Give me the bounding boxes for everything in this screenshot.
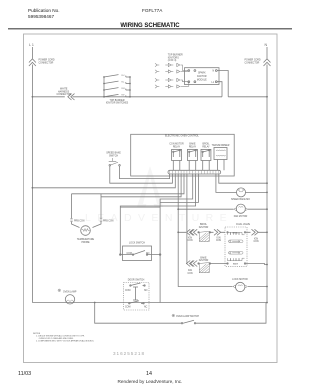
svg-text:LOCK SWITCH: LOCK SWITCH (129, 243, 145, 245)
svg-text:BAKE: BAKE (233, 263, 239, 266)
svg-text:NO: NO (144, 290, 148, 292)
svg-text:RELAY: RELAY (189, 145, 197, 148)
svg-text:N: N (213, 71, 215, 73)
svg-text:DOOR SWITCH: DOOR SWITCH (128, 279, 145, 281)
svg-text:OVEN LAMP: OVEN LAMP (63, 290, 77, 293)
svg-text:ELECTRONIC OVEN CONTROL: ELECTRONIC OVEN CONTROL (165, 136, 200, 138)
svg-text:316255218: 316255218 (113, 351, 145, 356)
svg-text:BROIL: BROIL (233, 232, 239, 234)
svg-text:CON MOTOR: CON MOTOR (169, 144, 184, 146)
svg-text:POWER CORD: POWER CORD (245, 60, 261, 62)
svg-text:WHITE: WHITE (60, 89, 68, 91)
svg-text:TOP BURNER: TOP BURNER (168, 55, 183, 57)
svg-text:PRB CON: PRB CON (74, 221, 85, 223)
svg-text:POWER CORD: POWER CORD (39, 60, 55, 62)
svg-text:SPEED BAKE MO: SPEED BAKE MO (231, 198, 250, 201)
svg-text:SPEED BAKE: SPEED BAKE (106, 152, 121, 155)
svg-text:PROBE: PROBE (81, 242, 90, 244)
svg-text:CON: CON (253, 241, 258, 243)
svg-text:LOCK MOTOR: LOCK MOTOR (232, 279, 248, 281)
svg-text:IGNITOR: IGNITOR (199, 227, 209, 229)
svg-text:R-F: R-F (122, 95, 126, 97)
svg-text:Rendered by LeadVenture, Inc.: Rendered by LeadVenture, Inc. (118, 379, 183, 384)
svg-text:NC: NC (144, 306, 148, 308)
svg-text:CON: CON (216, 240, 221, 242)
svg-text:DUAL VALVE: DUAL VALVE (236, 223, 250, 226)
svg-text:CON: CON (187, 273, 192, 275)
svg-text:TOP BURNER: TOP BURNER (110, 100, 125, 102)
svg-text:R-L: R-L (122, 81, 125, 83)
svg-text:BAKE: BAKE (189, 143, 196, 146)
svg-text:CONNECTOR: CONNECTOR (57, 94, 72, 96)
svg-text:BROIL: BROIL (203, 144, 211, 146)
svg-text:(4 OF 4): (4 OF 4) (168, 60, 177, 62)
svg-text:NO: NO (146, 253, 150, 255)
svg-text:IGN: IGN (216, 237, 220, 239)
svg-text:RELAY: RELAY (173, 145, 181, 148)
svg-text:BAKE: BAKE (200, 256, 207, 259)
svg-text:BROIL: BROIL (200, 224, 208, 226)
svg-text:COM: COM (125, 290, 130, 292)
svg-text:PRB CON: PRB CON (103, 221, 114, 223)
svg-text:IGNITOR: IGNITOR (199, 260, 209, 262)
svg-text:MODULE: MODULE (197, 80, 207, 82)
svg-text:R-C: R-C (122, 75, 126, 77)
svg-text:COM: COM (125, 306, 130, 308)
svg-text:COM: COM (127, 253, 132, 255)
svg-text:14: 14 (146, 371, 152, 377)
svg-text:TRANSFORMER: TRANSFORMER (212, 144, 230, 147)
svg-text:L1: L1 (212, 82, 215, 84)
svg-text:N: N (265, 43, 268, 47)
svg-text:L 1: L 1 (29, 43, 34, 47)
svg-text:TEMPERATURE: TEMPERATURE (77, 238, 95, 241)
svg-text:IGN: IGN (254, 238, 258, 240)
svg-text:NOTES: NOTES (33, 333, 41, 335)
svg-text:11/03: 11/03 (18, 371, 31, 377)
svg-text:CONNECTOR: CONNECTOR (39, 62, 54, 64)
svg-text:HARNESS: HARNESS (58, 90, 70, 93)
svg-text:SPARK: SPARK (198, 72, 206, 75)
svg-text:Publication No.: Publication No. (28, 8, 60, 13)
svg-text:IGNITOR SWITCHES: IGNITOR SWITCHES (106, 103, 129, 105)
svg-text:IGNITOR: IGNITOR (197, 76, 207, 78)
svg-text:CON: CON (187, 240, 192, 242)
svg-text:5995398467: 5995398467 (28, 14, 54, 19)
svg-text:SWITCH: SWITCH (109, 155, 118, 157)
svg-text:OVEN LAMP SWITCH: OVEN LAMP SWITCH (176, 315, 199, 318)
svg-text:WIRING SCHEMATIC: WIRING SCHEMATIC (120, 23, 180, 29)
svg-text:RELAY: RELAY (202, 145, 210, 148)
svg-text:FGFL77A: FGFL77A (142, 8, 163, 13)
svg-text:IGN: IGN (188, 270, 192, 272)
svg-text:IGN: IGN (188, 237, 192, 239)
svg-text:2. COMPONENTS MTD. WITH * D: 2. COMPONENTS MTD. WITH * DO NOT APPEAR … (36, 340, 94, 343)
svg-text:CONNECTOR: CONNECTOR (245, 62, 260, 64)
svg-text:FAN MOTOR: FAN MOTOR (234, 215, 248, 218)
svg-text:R-R: R-R (122, 88, 126, 90)
svg-text:IGNITORS: IGNITORS (168, 57, 180, 59)
